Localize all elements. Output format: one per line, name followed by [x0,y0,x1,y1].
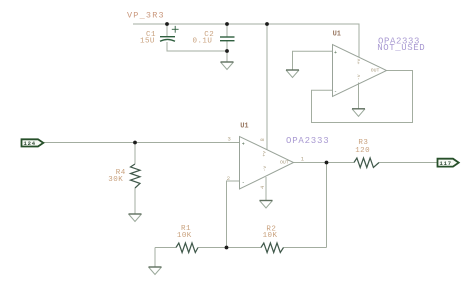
svg-text:+: + [242,142,245,148]
svg-text:10K: 10K [177,232,192,240]
svg-text:30K: 30K [108,176,123,184]
svg-text:15U: 15U [140,37,155,45]
svg-text:+: + [334,50,337,56]
svg-text:OPA2333: OPA2333 [286,136,329,146]
svg-text:OUT: OUT [280,159,289,165]
svg-text:2: 2 [227,175,230,182]
svg-text:8: 8 [259,138,266,141]
svg-text:-v: -v [357,74,362,80]
svg-text:3: 3 [228,136,231,143]
svg-text:-: - [242,180,245,186]
svg-text:+v: +v [357,59,362,65]
svg-text:U1: U1 [333,31,341,39]
svg-text:R3: R3 [358,139,368,147]
svg-text:VP_3R3: VP_3R3 [127,11,165,21]
svg-text:+v: +v [263,151,268,157]
svg-text:0.1U: 0.1U [193,37,213,45]
svg-text:OUT: OUT [371,68,380,74]
svg-text:U1: U1 [240,123,248,131]
svg-text:10K: 10K [263,232,278,240]
svg-text:NOT_USED: NOT_USED [377,43,425,53]
svg-text:124: 124 [24,140,36,147]
svg-text:-: - [334,88,337,94]
svg-text:120: 120 [355,147,370,155]
svg-text:-v: -v [263,166,268,172]
svg-text:117: 117 [440,160,452,167]
